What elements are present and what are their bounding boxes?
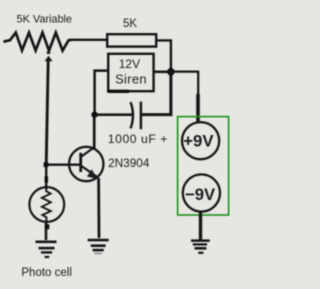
- svg-text:Siren: Siren: [115, 71, 147, 86]
- resistor R2 5K box: [107, 34, 156, 46]
- ground below -9V battery: [191, 239, 210, 242]
- wire photocell bottom to ground: [45, 221, 48, 241]
- ground below photo cell: [36, 241, 57, 244]
- svg-text:5K Variable: 5K Variable: [17, 14, 73, 26]
- wire siren left side to collector rail corner: [95, 71, 109, 115]
- wire -9V bottom to ground: [199, 212, 202, 241]
- transistor Q1 base bar: [79, 153, 82, 172]
- transistor Q1 emitter arrowhead: [87, 169, 97, 179]
- resistor R1 5K variable zigzag: [5, 33, 72, 51]
- wiper arrow of variable resistor: [47, 51, 50, 54]
- junction dot C (base/photocell node): [44, 162, 49, 167]
- transistor Q1 emitter stroke: [81, 166, 99, 178]
- svg-text:+9V: +9V: [183, 132, 214, 151]
- wire 5K box right to corner then down to junction: [156, 40, 171, 71]
- ground below emitter: [88, 239, 109, 242]
- wire emitter down to ground: [97, 178, 100, 238]
- wire junction down to photocell: [45, 165, 47, 189]
- junction dot B (collector/capacitor node): [91, 112, 97, 118]
- capacitor C1 leads: [96, 113, 133, 116]
- thick blob on photocell wire: [45, 176, 48, 182]
- siren box U1: [108, 54, 153, 91]
- wire base horizontal from photocell junction to transistor base: [46, 164, 80, 166]
- svg-text:2N3904: 2N3904: [108, 156, 150, 170]
- supply group green box: [178, 117, 229, 215]
- wire junction down to capacitor right lead: [142, 72, 171, 115]
- wire junction to siren box right side: [153, 71, 171, 74]
- junction dot A (siren/+9V node): [167, 68, 175, 76]
- wire wiper shaft down to base junction: [46, 61, 48, 165]
- svg-text:−9V: −9V: [185, 185, 216, 204]
- junction square dot below photocell: [45, 224, 50, 229]
- svg-text:12V: 12V: [119, 57, 140, 71]
- siren box thick bottom-left edge: [108, 90, 129, 93]
- photo cell internal zigzag: [42, 189, 51, 221]
- wire top run from zigzag to 5K resistor box: [71, 39, 108, 41]
- svg-text:1000 uF +: 1000 uF +: [108, 132, 168, 146]
- svg-text:5K: 5K: [123, 18, 137, 30]
- wire collector rail down to transistor: [93, 115, 96, 149]
- transistor Q1 circle: [69, 147, 103, 181]
- capacitor C1 straight positive plate: [140, 102, 143, 130]
- wire junction right then down to +9V battery: [171, 72, 198, 95]
- capacitor C1 curved negative plate: [131, 102, 133, 128]
- svg-text:Photo cell: Photo cell: [21, 267, 72, 279]
- battery -9V circle: [183, 174, 220, 211]
- battery +9V circle: [182, 122, 219, 159]
- transistor Q1 collector stroke: [81, 148, 94, 158]
- photo cell PC1 circle: [29, 187, 64, 222]
